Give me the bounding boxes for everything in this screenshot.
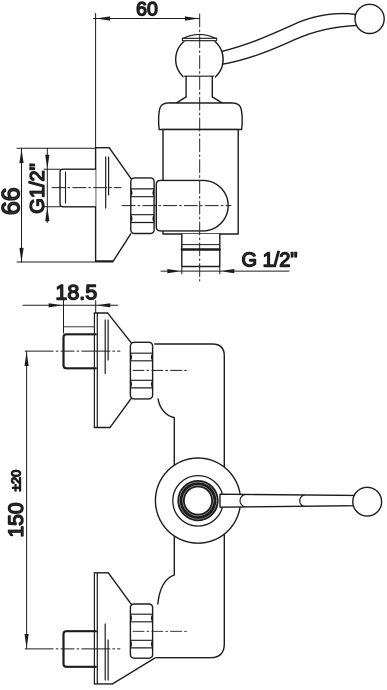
top wall nipple crest line (64, 326, 95, 328)
valve body outline (front view) (155, 344, 225, 658)
dimension G1/2 side with arrows and extension lines (44, 149, 60, 223)
body waist fillets (front view) (158, 399, 175, 604)
cartridge cover bell (side view) (159, 103, 243, 130)
svg-text:±20: ±20 (8, 470, 23, 492)
handle neck and flared skirt (side view) (176, 75, 222, 103)
top inlet boss centerline (front view) (133, 369, 187, 371)
handle dome cap (side view) (182, 34, 216, 41)
wall supply nipple thread G1/2 (side view) (60, 169, 96, 207)
top escutcheon plate (front view) (94, 313, 131, 428)
bottom wall pipe centerline (front view) (25, 648, 120, 650)
bottom wall nipple thread G1/2 (front view) (64, 631, 96, 667)
dimension 150 +-20 with arrows (25, 352, 29, 649)
top wall nipple thread G1/2 (front view) (64, 334, 96, 368)
dimension 66 with arrows and extension lines (17, 148, 113, 262)
handle lever end ball (side view) (355, 4, 384, 33)
inlet boss centerline (side view) (122, 205, 231, 207)
bell top edge line under skirt (170, 102, 232, 104)
handle lever rod (front view) (220, 494, 354, 507)
svg-text:150: 150 (5, 502, 28, 537)
bottom inlet boss centerline (front view) (133, 630, 187, 632)
svg-text:18.5: 18.5 (55, 281, 97, 305)
handle base large circle (front view) (155, 458, 240, 543)
svg-text:G1/2": G1/2" (27, 163, 49, 213)
handle lever end ball (front view) (353, 487, 382, 516)
center cross tick on wall nipple (65, 172, 67, 203)
union hex nut (side view) (131, 178, 154, 234)
dimension 18.5 with arrows and extension lines (23, 301, 118, 333)
svg-text:G 1/2": G 1/2" (242, 250, 298, 272)
bottom escutcheon plate (front view) (94, 573, 155, 684)
vertical centerline of handle axis (side view) (199, 14, 201, 281)
thin ring circle (front view) (173, 476, 223, 526)
cartridge ring dark annulus (front view) (179, 482, 216, 519)
inlet boss elbow D-shape (side view) (156, 180, 228, 231)
handle ball knob (side view) (176, 36, 223, 83)
dimension 60 with arrows and extension line (94, 14, 200, 148)
valve body column (side view) (163, 130, 238, 235)
top wall pipe centerline (front view) (25, 350, 120, 352)
wall pipe centerline (side view) (52, 187, 121, 189)
dimension G 1/2 outlet with arrows and extension lines (161, 267, 289, 274)
svg-text:60: 60 (136, 0, 158, 20)
handle lever arm (side view) (222, 14, 357, 65)
bottom union hex nut (front view) (130, 604, 152, 658)
outlet spout G1/2 (side view) (182, 234, 220, 267)
svg-text:66: 66 (0, 187, 25, 215)
wall escutcheon plate and cone (side view) (96, 148, 131, 261)
top union hex nut (front view) (130, 342, 152, 399)
